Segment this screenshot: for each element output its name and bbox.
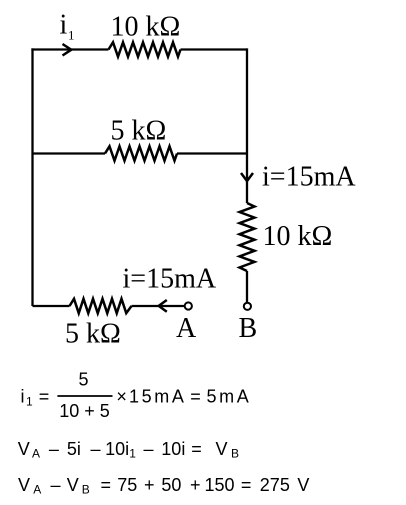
svg-text:150: 150 (205, 475, 235, 495)
svg-text:75: 75 (117, 475, 137, 495)
wire: top horizontal left segment (31, 48, 108, 50)
svg-text:10i: 10i (105, 439, 129, 459)
svg-text:V: V (216, 439, 228, 459)
svg-text:i: i (21, 387, 25, 407)
wire: right vertical rail (top corner down to resistor) (246, 48, 248, 203)
svg-text:V: V (297, 475, 309, 495)
svg-text:10 + 5: 10 + 5 (59, 401, 110, 421)
resistor R bottom 5k: zigzag on bottom wire (70, 299, 132, 313)
resistor R middle 5k: zigzag on middle wire (105, 146, 177, 160)
node B: open terminal circle (244, 303, 251, 310)
svg-text:10 kΩ: 10 kΩ (263, 221, 333, 252)
svg-text:V: V (67, 475, 79, 495)
svg-text:A: A (176, 313, 197, 344)
wire: middle horizontal left segment (33, 152, 106, 154)
svg-text:V: V (18, 439, 30, 459)
arrow: current i on bottom wire, pointing left (159, 300, 167, 312)
svg-text:275: 275 (260, 475, 290, 495)
wire: right rail from resistor down to node B (246, 271, 248, 302)
svg-text:5mA: 5mA (207, 387, 252, 407)
svg-text:10 kΩ: 10 kΩ (111, 12, 181, 43)
svg-text:i: i (60, 10, 68, 41)
svg-text:B: B (231, 447, 239, 461)
svg-text:=: = (241, 475, 252, 495)
wire: top horizontal right segment (181, 48, 248, 50)
svg-text:B: B (82, 483, 90, 497)
eq1: fraction bar (57, 395, 112, 397)
equation line 2: VA - 5i - 10i1 - 10i = VB (18, 439, 239, 461)
svg-text:+: + (190, 475, 201, 495)
resistor R right 10k: vertical zigzag on right rail (240, 203, 255, 271)
svg-text:5 kΩ: 5 kΩ (111, 116, 167, 147)
svg-text:–: – (51, 475, 61, 495)
svg-text:i=15mA: i=15mA (123, 264, 217, 295)
wire: bottom horizontal left segment (33, 305, 70, 307)
svg-text:1: 1 (68, 28, 75, 43)
node A: open terminal circle (185, 302, 192, 309)
svg-text:50: 50 (161, 475, 181, 495)
resistor R top 10k: zigzag on top wire (109, 42, 181, 56)
svg-text:B: B (239, 313, 258, 344)
svg-text:=: = (39, 387, 50, 407)
svg-text:A: A (33, 483, 41, 497)
svg-text:–: – (144, 439, 154, 459)
svg-text:+: + (144, 475, 155, 495)
svg-text:=: = (190, 387, 201, 407)
svg-text:V: V (18, 475, 30, 495)
svg-text:×: × (116, 387, 127, 407)
svg-text:5: 5 (78, 370, 88, 390)
svg-text:1: 1 (129, 447, 136, 461)
svg-text:1: 1 (26, 395, 33, 409)
svg-text:15mA: 15mA (129, 387, 186, 407)
wire: left vertical rail (31, 48, 33, 306)
svg-text:5 kΩ: 5 kΩ (65, 319, 121, 350)
svg-text:i=15mA: i=15mA (262, 162, 356, 193)
svg-text:–: – (91, 439, 101, 459)
svg-text:10i: 10i (161, 439, 185, 459)
wire: middle horizontal right segment (177, 152, 247, 154)
equation line 3: VA - VB = 75 + 50 + 150 = 275 V (18, 475, 309, 497)
svg-text:–: – (49, 439, 59, 459)
arrow: current i1 on top wire, pointing right (63, 44, 72, 56)
svg-text:5i: 5i (67, 439, 81, 459)
arrow: current i on right rail, pointing down (241, 173, 253, 181)
svg-text:=: = (191, 439, 202, 459)
equation line 1: i1 = 5/(10+5) x 15mA = 5mA (21, 370, 252, 421)
svg-text:=: = (101, 475, 112, 495)
svg-text:A: A (32, 447, 40, 461)
wire: bottom horizontal from resistor to node A (132, 305, 185, 307)
